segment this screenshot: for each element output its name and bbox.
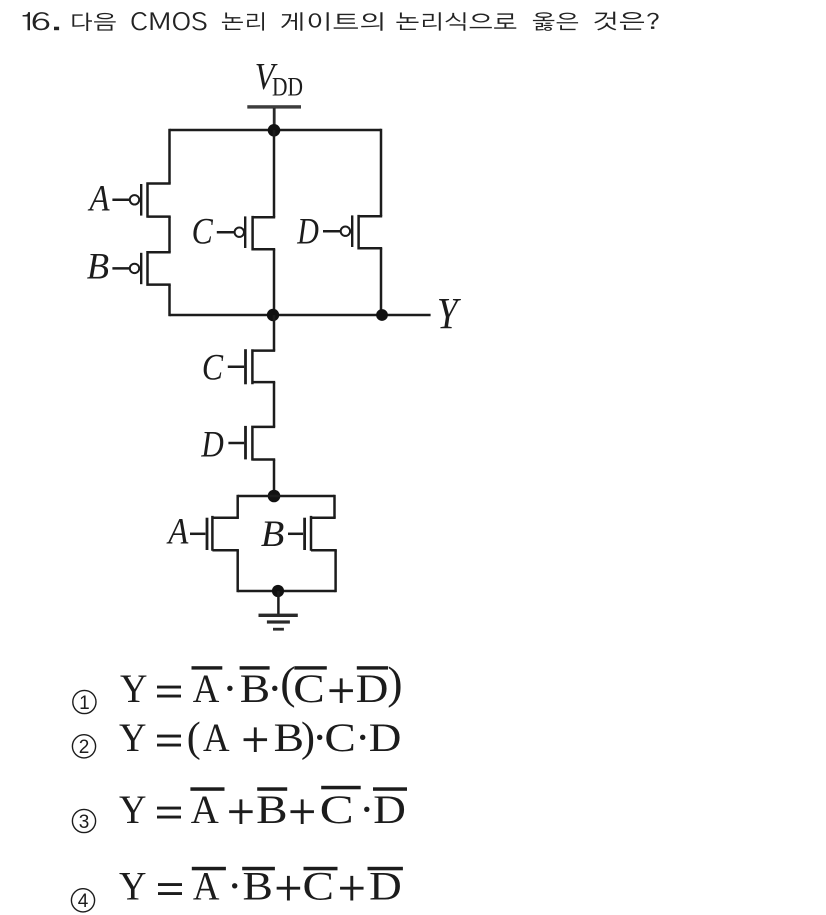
transistor NMOS C — [228, 349, 275, 384]
svg-text:A: A — [203, 717, 230, 761]
wire: center rail upper — [273, 130, 276, 217]
option 1 circled number — [73, 690, 96, 713]
svg-text:): ) — [387, 657, 402, 708]
svg-text:A: A — [193, 668, 220, 712]
wire: right branch lower — [334, 550, 337, 592]
svg-text:D: D — [296, 212, 319, 252]
svg-text:B: B — [261, 515, 285, 555]
svg-text:B: B — [87, 246, 109, 287]
wire: parallel block top rail — [238, 495, 335, 498]
wire: output rail to Y — [170, 314, 431, 317]
wire: left branch upper — [236, 495, 239, 518]
wire: left rail lower — [168, 285, 171, 317]
wire: center rail between NMOS C and D — [273, 382, 276, 427]
svg-text:D: D — [356, 667, 389, 711]
svg-text:D: D — [369, 865, 402, 909]
svg-text:A: A — [166, 511, 189, 552]
wire: VDD stem — [273, 108, 276, 130]
option 3 circled number — [72, 809, 95, 832]
svg-text:B: B — [274, 716, 304, 760]
option 4 circled number — [71, 889, 94, 912]
transistor NMOS A — [190, 516, 239, 551]
svg-text:4: 4 — [78, 891, 89, 912]
transistor NMOS B — [288, 516, 337, 551]
svg-text:Y: Y — [119, 788, 146, 832]
svg-text:C: C — [303, 865, 334, 909]
wire: parallel block bottom rail — [238, 590, 336, 593]
wire: ground stem — [277, 591, 280, 614]
svg-text:C: C — [192, 213, 214, 252]
svg-text:B: B — [240, 667, 270, 711]
svg-text:Y: Y — [437, 288, 462, 338]
wire: left rail upper — [168, 129, 171, 184]
question title text — [23, 12, 659, 31]
wire: top rail — [170, 129, 382, 132]
ground symbol — [259, 614, 298, 631]
transistor PMOS D — [323, 215, 382, 250]
svg-text:B: B — [256, 788, 287, 832]
node: junction dot above parallel block — [268, 490, 281, 503]
wire: center rail to parallel block — [273, 460, 276, 497]
transistor PMOS C — [217, 216, 275, 251]
wire: right rail upper — [380, 129, 383, 216]
svg-text:C: C — [202, 349, 224, 388]
svg-text:Y: Y — [120, 667, 147, 711]
wire: left branch lower — [236, 550, 239, 592]
node: junction dot output center — [267, 309, 279, 321]
node: junction dot at ground — [272, 585, 284, 597]
svg-text:): ) — [301, 715, 315, 761]
wire: center rail to output — [273, 249, 276, 316]
power VDD bar — [247, 105, 301, 108]
svg-text:D: D — [373, 788, 406, 832]
svg-text:3: 3 — [79, 812, 90, 833]
wire: right branch upper — [333, 495, 336, 518]
svg-text:C: C — [320, 787, 354, 831]
transistor NMOS D — [228, 426, 275, 461]
node: junction dot output right — [376, 309, 388, 321]
node: junction dot at VDD / top rail — [268, 124, 281, 137]
svg-text:D: D — [369, 716, 402, 760]
svg-text:C: C — [324, 716, 355, 760]
option 2 circled number — [72, 735, 95, 758]
transistor PMOS B — [112, 251, 170, 286]
svg-text:A: A — [193, 865, 220, 909]
svg-text:A: A — [191, 787, 220, 832]
svg-text:Y: Y — [119, 865, 146, 909]
svg-text:2: 2 — [79, 737, 90, 758]
svg-text:C: C — [293, 667, 324, 711]
svg-text:1: 1 — [79, 693, 90, 714]
svg-text:A: A — [88, 178, 111, 219]
wire: right rail lower — [380, 248, 383, 316]
wire: center rail to NMOS C — [273, 315, 276, 351]
svg-text:DD: DD — [272, 73, 303, 102]
transistor PMOS A — [112, 182, 170, 218]
svg-text:B: B — [243, 865, 273, 909]
wire: left rail between A and B — [168, 217, 171, 253]
svg-text:(: ( — [187, 715, 201, 761]
svg-text:Y: Y — [119, 716, 146, 760]
svg-text:D: D — [200, 425, 223, 465]
